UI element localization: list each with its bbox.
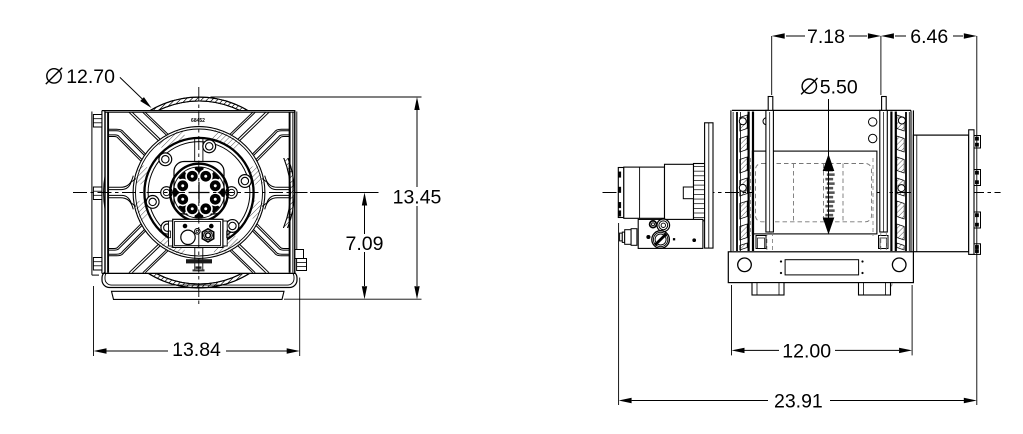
svg-text:6.46: 6.46: [910, 26, 948, 48]
svg-text:12.70: 12.70: [66, 66, 115, 88]
svg-text:23.91: 23.91: [774, 391, 823, 413]
svg-text:7.18: 7.18: [807, 26, 845, 48]
svg-text:68452: 68452: [191, 118, 205, 124]
svg-text:7.09: 7.09: [346, 233, 384, 255]
svg-text:5.50: 5.50: [820, 77, 858, 99]
svg-text:12.00: 12.00: [782, 340, 831, 362]
svg-text:13.45: 13.45: [393, 186, 442, 208]
svg-text:13.84: 13.84: [172, 339, 221, 361]
